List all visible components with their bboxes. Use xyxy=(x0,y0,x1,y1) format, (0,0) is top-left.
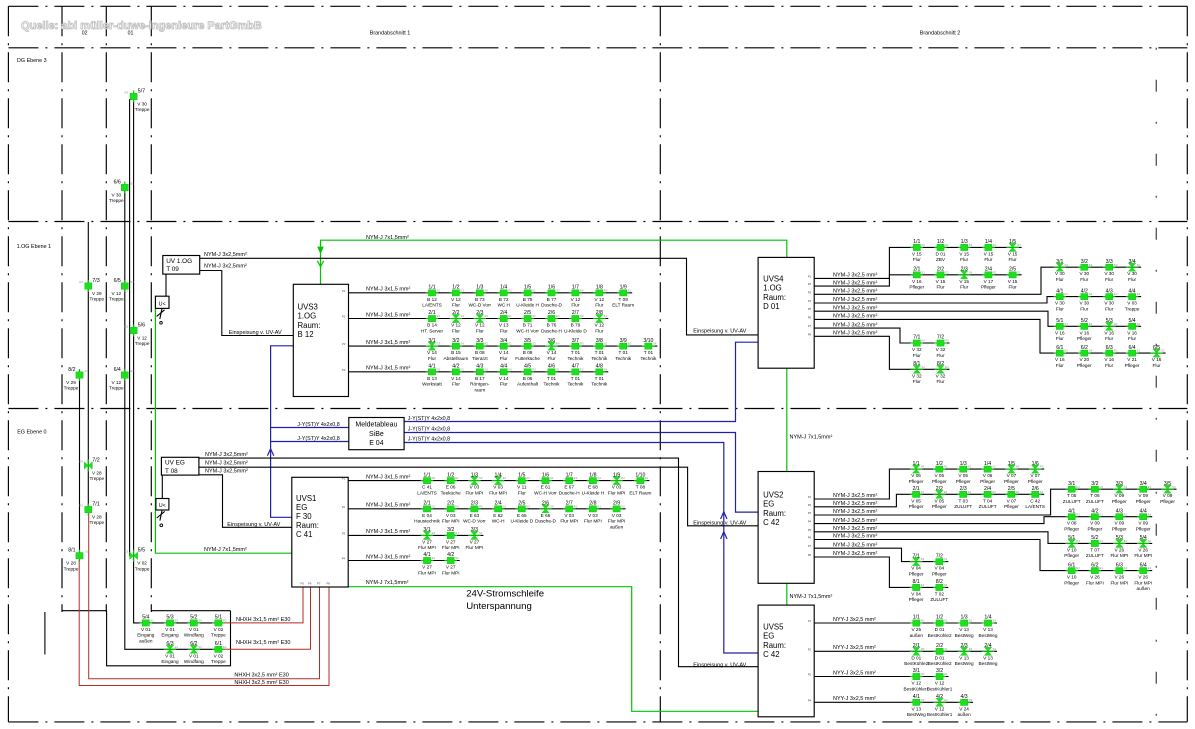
svg-text:3/3: 3/3 xyxy=(1116,481,1123,487)
svg-text:Teeküche: Teeküche xyxy=(441,490,461,495)
svg-text:2/1: 2/1 xyxy=(913,643,920,649)
luminaire UVS3 2/4 V 13 xyxy=(497,310,512,333)
svg-text:2/2: 2/2 xyxy=(937,267,944,273)
switch symbol below U< 1.OG xyxy=(157,308,165,319)
svg-text:S3: S3 xyxy=(1064,322,1068,326)
riser wire V29/V28 Treppe (x=88) xyxy=(87,222,89,510)
svg-text:NYM-J 3x1,5 mm²: NYM-J 3x1,5 mm² xyxy=(366,503,410,509)
svg-text:ELT Raum: ELT Raum xyxy=(629,490,651,495)
luminaire UVS4 6/4 V 21 xyxy=(1125,345,1141,368)
svg-text:Pfleger: Pfleger xyxy=(1064,527,1079,532)
luminaire UVS2 6/3 V 26 xyxy=(1110,562,1128,585)
svg-text:1/7: 1/7 xyxy=(566,472,573,478)
svg-text:S1: S1 xyxy=(921,365,925,369)
luminaire UVS4 7/2 V 32 xyxy=(934,335,949,358)
svg-text:2/4: 2/4 xyxy=(985,267,992,273)
svg-text:V 01: V 01 xyxy=(165,653,175,658)
svg-text:2/1: 2/1 xyxy=(428,310,435,316)
svg-text:V 04: V 04 xyxy=(911,566,921,571)
svg-text:4/6: 4/6 xyxy=(548,364,555,370)
svg-text:S4: S4 xyxy=(944,583,948,587)
svg-text:E4: E4 xyxy=(455,504,459,508)
luminaire UVS5 3/2 V 12 xyxy=(927,668,953,691)
luminaire UVS4 2/5 V 15 xyxy=(1006,267,1021,290)
blue arrow up 2 on UVS5 line xyxy=(721,532,727,539)
wire circuit UVS5 1 xyxy=(814,622,997,624)
svg-text:P1: P1 xyxy=(342,477,346,481)
svg-text:V 27: V 27 xyxy=(446,539,456,544)
luminaire riser 7/1 V 28 Treppe xyxy=(79,501,104,525)
svg-text:EG Ebene 0: EG Ebene 0 xyxy=(17,430,46,436)
svg-text:Pfleger: Pfleger xyxy=(1087,527,1102,532)
svg-text:5/4: 5/4 xyxy=(1128,318,1135,324)
svg-text:P2: P2 xyxy=(808,647,812,651)
luminaire riser 5/7 V 30 Treppe xyxy=(125,88,150,112)
svg-text:Pfleger: Pfleger xyxy=(981,285,996,290)
svg-text:R3: R3 xyxy=(1100,485,1104,489)
luminaire UVS3 2/7 B 79 xyxy=(564,310,587,333)
luminaire UVS1 2/8 V 03 xyxy=(584,501,602,524)
svg-text:NYM-J 3x2,5 mm²: NYM-J 3x2,5 mm² xyxy=(833,305,877,311)
svg-text:7/3: 7/3 xyxy=(92,278,100,284)
svg-text:Haustechnik: Haustechnik xyxy=(414,519,440,524)
svg-text:Pfleger: Pfleger xyxy=(1136,499,1151,504)
luminaire row6 6/1 V 02 xyxy=(211,641,227,664)
svg-text:3/2: 3/2 xyxy=(1081,259,1088,265)
svg-text:P5: P5 xyxy=(301,582,305,586)
svg-text:BestWeg: BestWeg xyxy=(979,633,998,638)
svg-text:E4: E4 xyxy=(1089,263,1093,267)
svg-text:V 27: V 27 xyxy=(446,565,456,570)
luminaire UVS2 1/6 V 07 xyxy=(1028,461,1044,484)
svg-text:6/5: 6/5 xyxy=(1153,345,1160,351)
svg-text:24V-Stromschleife: 24V-Stromschleife xyxy=(466,588,544,599)
svg-text:E3: E3 xyxy=(969,647,973,651)
svg-text:2/3: 2/3 xyxy=(960,643,967,649)
svg-text:S1: S1 xyxy=(628,288,632,292)
svg-text:T 01: T 01 xyxy=(595,376,605,381)
svg-text:B 76: B 76 xyxy=(547,323,557,328)
svg-text:E4: E4 xyxy=(1016,465,1020,469)
svg-text:E3: E3 xyxy=(944,490,948,494)
svg-text:6/3: 6/3 xyxy=(1106,345,1113,351)
luminaire UVS1 4/2 V 27 xyxy=(442,552,460,575)
svg-text:Eingang: Eingang xyxy=(161,633,179,638)
svg-text:5/3: 5/3 xyxy=(1116,535,1123,541)
svg-text:S4: S4 xyxy=(993,647,997,651)
svg-text:6/1: 6/1 xyxy=(215,641,222,647)
svg-text:5/2: 5/2 xyxy=(190,615,197,621)
svg-text:R3: R3 xyxy=(479,504,483,508)
svg-text:1/5: 1/5 xyxy=(524,285,531,291)
svg-text:T 04: T 04 xyxy=(983,498,993,503)
svg-text:2/1: 2/1 xyxy=(423,501,430,507)
wire J-Y(ST)Y meldetableau left bottom xyxy=(271,441,349,443)
svg-text:E 62: E 62 xyxy=(493,513,503,518)
svg-text:V 16: V 16 xyxy=(1152,357,1162,362)
svg-text:V 27: V 27 xyxy=(422,539,432,544)
svg-text:NYM-J 3x1,5 mm²: NYM-J 3x1,5 mm² xyxy=(366,474,410,480)
luminaire UVS3 3/1 V 14 xyxy=(426,338,441,361)
svg-text:E3: E3 xyxy=(574,476,578,480)
luminaire UVS1 2/5 E 65 xyxy=(510,501,533,524)
svg-text:E4: E4 xyxy=(556,342,560,346)
wire circuit UVS1 1 xyxy=(348,480,649,482)
svg-text:B 77: B 77 xyxy=(547,297,557,302)
svg-text:BestKühle2: BestKühle2 xyxy=(904,661,928,666)
svg-text:Treppe: Treppe xyxy=(1125,306,1140,311)
wire circuit UVS4 5 xyxy=(814,311,1141,326)
luminaire UVS2 7/1 V 04 xyxy=(909,553,925,576)
svg-text:V 04: V 04 xyxy=(911,591,921,596)
svg-text:Flur MPI: Flur MPI xyxy=(442,570,460,575)
luminaire UVS5 1/3 V 13 xyxy=(955,615,974,638)
svg-text:E1: E1 xyxy=(455,476,459,480)
svg-text:E4: E4 xyxy=(944,698,948,702)
svg-text:1/2: 1/2 xyxy=(936,461,943,467)
svg-text:WC-H: WC-H xyxy=(492,519,505,524)
svg-text:2/5: 2/5 xyxy=(518,501,525,507)
svg-text:1/3: 1/3 xyxy=(476,285,483,291)
svg-text:NYY-J 3x2,5 mm²: NYY-J 3x2,5 mm² xyxy=(833,670,876,676)
svg-text:V 10: V 10 xyxy=(1067,547,1077,552)
svg-text:WC-D Vorr: WC-D Vorr xyxy=(468,303,491,308)
svg-text:R2: R2 xyxy=(223,619,227,623)
drawing frame bottom border xyxy=(8,721,1187,723)
svg-text:E3: E3 xyxy=(921,583,925,587)
svg-text:E4: E4 xyxy=(993,243,997,247)
luminaire UVS1 1/4 V 03 xyxy=(489,472,507,495)
svg-text:NHXH 3x2,5 mm² E30: NHXH 3x2,5 mm² E30 xyxy=(234,672,288,678)
luminaire UVS3 1/6 B 77 xyxy=(541,285,562,308)
svg-text:Pfleger: Pfleger xyxy=(909,479,924,484)
svg-text:3/4: 3/4 xyxy=(1140,481,1147,487)
svg-text:LA/ENTS: LA/ENTS xyxy=(422,303,442,308)
distribution box UVS4 xyxy=(758,257,814,368)
svg-text:S1: S1 xyxy=(556,367,560,371)
svg-text:4/5: 4/5 xyxy=(524,364,531,370)
svg-text:V 13: V 13 xyxy=(983,655,993,660)
svg-text:S1: S1 xyxy=(1124,485,1128,489)
svg-text:UVS2: UVS2 xyxy=(763,491,783,500)
svg-text:V 12: V 12 xyxy=(137,336,147,341)
svg-text:DG Ebene 3: DG Ebene 3 xyxy=(17,58,47,64)
svg-text:S3: S3 xyxy=(198,645,202,649)
wire circuit UVS1 4 xyxy=(348,560,460,562)
svg-text:T 08: T 08 xyxy=(165,468,178,475)
svg-text:NYM-J 7x1,5mm²: NYM-J 7x1,5mm² xyxy=(204,547,247,553)
luminaire UVS5 2/1 D 01 xyxy=(904,643,928,666)
svg-text:P4: P4 xyxy=(808,299,812,303)
luminaire UVS4 1/5 V 15 xyxy=(1006,239,1021,262)
svg-text:V 14: V 14 xyxy=(427,350,437,355)
svg-text:V 12: V 12 xyxy=(594,323,604,328)
svg-text:Dusche-H: Dusche-H xyxy=(559,490,580,495)
svg-text:S1: S1 xyxy=(1100,539,1104,543)
svg-text:4/3: 4/3 xyxy=(1116,508,1123,514)
svg-text:S4: S4 xyxy=(1089,349,1093,353)
svg-text:S3: S3 xyxy=(432,504,436,508)
svg-text:T 01: T 01 xyxy=(595,350,605,355)
svg-text:2/8: 2/8 xyxy=(596,310,603,316)
svg-text:NYY-J 3x2,5 mm²: NYY-J 3x2,5 mm² xyxy=(833,696,876,702)
svg-text:P5: P5 xyxy=(808,528,812,532)
svg-text:1/1: 1/1 xyxy=(913,615,920,621)
svg-text:6/6: 6/6 xyxy=(114,179,121,185)
svg-text:D 01: D 01 xyxy=(911,655,921,660)
svg-text:E3: E3 xyxy=(945,270,949,274)
svg-text:V 26: V 26 xyxy=(1114,575,1124,580)
svg-text:E1: E1 xyxy=(532,288,536,292)
svg-text:P1: P1 xyxy=(808,619,812,623)
luminaire UVS2 8/1 V 04 xyxy=(909,579,925,602)
distribution box UVS1 xyxy=(292,477,348,587)
wire circuit UVS1 3 xyxy=(348,534,483,536)
svg-text:Pfleger: Pfleger xyxy=(1136,527,1151,532)
luminaire UVS2 2/2 V 05 xyxy=(932,486,948,509)
luminaire UVS1 1/3 V 03 xyxy=(466,472,484,495)
svg-text:R2: R2 xyxy=(1076,512,1080,516)
svg-text:P3: P3 xyxy=(342,531,346,535)
svg-text:F 30: F 30 xyxy=(296,512,312,521)
svg-text:8/1: 8/1 xyxy=(68,548,75,554)
svg-text:E4: E4 xyxy=(1089,322,1093,326)
svg-text:V 03: V 03 xyxy=(564,513,574,518)
luminaire UVS3 1/7 V 12 xyxy=(569,285,584,308)
svg-text:T 03: T 03 xyxy=(959,498,969,503)
svg-text:5/3: 5/3 xyxy=(1106,318,1113,324)
luminaire UVS3 4/7 T 01 xyxy=(567,364,584,387)
svg-text:S4: S4 xyxy=(598,476,602,480)
svg-text:E1: E1 xyxy=(944,619,948,623)
svg-text:BestWeg: BestWeg xyxy=(979,661,998,666)
wire blue riser to UVS3 xyxy=(271,346,294,442)
luminaire UVS4 4/4 V 03 xyxy=(1125,288,1141,311)
svg-text:C 42: C 42 xyxy=(763,518,779,527)
svg-text:E3: E3 xyxy=(1124,539,1128,543)
svg-text:U-Kleide H: U-Kleide H xyxy=(582,490,605,495)
svg-text:S4: S4 xyxy=(130,280,134,284)
svg-text:NYM-J 3x2,5 mm²: NYM-J 3x2,5 mm² xyxy=(833,551,877,557)
svg-text:ZULUFT: ZULUFT xyxy=(954,504,972,509)
svg-text:3/3: 3/3 xyxy=(476,338,483,344)
svg-text:Flur MPI: Flur MPI xyxy=(466,545,484,550)
svg-text:Pfleger: Pfleger xyxy=(956,479,971,484)
wire circuit UVS2 8 xyxy=(814,557,948,587)
svg-text:HT. Server: HT. Server xyxy=(421,328,444,333)
svg-text:E4: E4 xyxy=(432,531,436,535)
svg-text:E1: E1 xyxy=(1100,512,1104,516)
svg-text:V 12: V 12 xyxy=(911,681,921,686)
svg-text:Technik: Technik xyxy=(567,356,584,361)
svg-text:J-Y(ST)Y 4x2x0,8: J-Y(ST)Y 4x2x0,8 xyxy=(408,427,450,433)
svg-text:B 17: B 17 xyxy=(475,376,485,381)
luminaire UVS4 5/3 V 16 xyxy=(1103,318,1118,341)
svg-text:V 13: V 13 xyxy=(911,706,921,711)
svg-text:3/3: 3/3 xyxy=(1106,259,1113,265)
svg-text:2/8: 2/8 xyxy=(589,501,596,507)
svg-text:T 01: T 01 xyxy=(571,350,581,355)
svg-text:3/1: 3/1 xyxy=(423,527,430,533)
svg-text:3/5: 3/5 xyxy=(524,338,531,344)
svg-text:P2: P2 xyxy=(342,315,346,319)
svg-text:UVS4: UVS4 xyxy=(763,275,784,284)
svg-text:1/8: 1/8 xyxy=(596,285,603,291)
svg-text:E4: E4 xyxy=(503,476,507,480)
svg-text:V 12: V 12 xyxy=(594,297,604,302)
svg-text:V 02: V 02 xyxy=(214,653,224,658)
svg-text:V 05: V 05 xyxy=(911,498,921,503)
svg-text:UVS3: UVS3 xyxy=(298,303,318,312)
svg-text:Flur: Flur xyxy=(1009,257,1018,262)
svg-text:T 05: T 05 xyxy=(1067,493,1077,498)
svg-text:außen: außen xyxy=(957,712,971,717)
svg-text:Pfleger: Pfleger xyxy=(932,479,947,484)
luminaire riser 5/5 V 02 Treppe xyxy=(125,548,150,572)
svg-text:Technik: Technik xyxy=(591,356,608,361)
luminaire UVS4 3/4 V 30 xyxy=(1126,259,1141,282)
svg-text:Flur MPI: Flur MPI xyxy=(1134,580,1152,585)
luminaire UVS2 5/3 V 26 xyxy=(1110,535,1128,558)
svg-text:V 12: V 12 xyxy=(451,323,461,328)
svg-text:P7: P7 xyxy=(808,324,812,328)
svg-text:S1: S1 xyxy=(1137,263,1141,267)
luminaire UVS1 1/1 C 41 xyxy=(417,472,437,495)
svg-text:V 15: V 15 xyxy=(984,251,994,256)
svg-text:3/2: 3/2 xyxy=(1091,481,1098,487)
luminaire UVS4 6/3 V 16 xyxy=(1103,345,1118,368)
svg-text:V 27: V 27 xyxy=(422,565,432,570)
svg-text:1/3: 1/3 xyxy=(960,615,967,621)
svg-text:R3: R3 xyxy=(1040,465,1044,469)
svg-text:R2: R2 xyxy=(921,672,925,676)
luminaire riser 6/4 V 12 Treppe xyxy=(109,367,134,391)
svg-text:P2: P2 xyxy=(808,503,812,507)
svg-text:T 06: T 06 xyxy=(1090,493,1100,498)
svg-text:P4: P4 xyxy=(342,368,346,372)
luminaire row6 6/2 V 01 xyxy=(184,641,204,664)
svg-text:Flur: Flur xyxy=(452,328,461,333)
svg-text:8/2: 8/2 xyxy=(936,579,943,585)
wire circuit UVS4 6 xyxy=(814,319,1165,353)
svg-text:E4: E4 xyxy=(1076,485,1080,489)
svg-text:NYM-J 7x1,5mm²: NYM-J 7x1,5mm² xyxy=(790,594,833,600)
left EG sub-net wire vertical stub xyxy=(44,612,46,655)
svg-text:7/1: 7/1 xyxy=(92,501,100,507)
svg-text:8/1: 8/1 xyxy=(913,361,920,367)
luminaire UVS1 2/3 E 63 xyxy=(463,501,486,524)
svg-text:P4: P4 xyxy=(808,698,812,702)
distribution box undervoltage monitor U< EG xyxy=(156,499,169,511)
luminaire UVS2 2/4 T 04 xyxy=(979,486,997,509)
svg-text:8/2: 8/2 xyxy=(68,367,75,373)
svg-text:WC-D Vorr: WC-D Vorr xyxy=(463,519,486,524)
luminaire riser 5/6 V 12 Treppe xyxy=(125,322,150,346)
svg-text:BestWeg: BestWeg xyxy=(955,633,974,638)
svg-text:EG: EG xyxy=(296,503,307,512)
svg-text:R2: R2 xyxy=(992,490,996,494)
svg-text:NYM-J 7x1,5mm²: NYM-J 7x1,5mm² xyxy=(366,580,409,586)
svg-text:Flur: Flur xyxy=(936,379,945,384)
svg-text:P7: P7 xyxy=(808,544,812,548)
svg-text:D 01: D 01 xyxy=(935,655,945,660)
svg-text:raum: raum xyxy=(474,387,485,392)
svg-text:3/4: 3/4 xyxy=(1128,259,1135,265)
header band separator line xyxy=(8,47,1187,49)
svg-text:R2: R2 xyxy=(1114,349,1118,353)
luminaire UVS2 8/2 T 02 xyxy=(930,579,948,602)
svg-text:1/1: 1/1 xyxy=(428,285,435,291)
luminaire UVS4 2/1 V 16 xyxy=(909,267,925,290)
svg-text:Flur: Flur xyxy=(595,328,604,333)
svg-text:6/2: 6/2 xyxy=(1091,562,1098,568)
zone boundary 1.OG Ebene 1 xyxy=(8,221,1187,223)
svg-text:S3: S3 xyxy=(1124,566,1128,570)
svg-text:5/6: 5/6 xyxy=(138,322,146,328)
svg-text:Technik: Technik xyxy=(544,382,561,387)
svg-text:Flur MPI: Flur MPI xyxy=(442,545,460,550)
svg-text:S3: S3 xyxy=(532,342,536,346)
luminaire UVS2 7/2 V 04 xyxy=(932,553,948,576)
svg-text:E 06: E 06 xyxy=(446,485,456,490)
svg-text:C 42: C 42 xyxy=(763,650,779,659)
svg-text:4/1: 4/1 xyxy=(1068,508,1075,514)
svg-text:Flur: Flur xyxy=(1056,363,1065,368)
svg-text:V 10: V 10 xyxy=(1067,575,1077,580)
luminaire UVS1 2/1 E 04 xyxy=(414,501,440,524)
svg-text:3/1: 3/1 xyxy=(1056,259,1063,265)
svg-text:7/2: 7/2 xyxy=(936,553,943,559)
luminaire UVS4 5/4 V 16 xyxy=(1126,318,1141,341)
svg-text:NYM-J 3x1,5 mm²: NYM-J 3x1,5 mm² xyxy=(366,366,410,372)
svg-text:E3: E3 xyxy=(628,342,632,346)
luminaire UVS1 4/1 V 27 xyxy=(418,552,436,575)
svg-text:B 71: B 71 xyxy=(523,323,533,328)
green arrow into UVS3 xyxy=(317,247,324,255)
luminaire UVS2 4/4 V 09 xyxy=(1136,508,1152,531)
luminaire row5 5/2 V 01 xyxy=(184,615,204,638)
svg-text:Flur MPI: Flur MPI xyxy=(1086,580,1104,585)
luminaire UVS5 4/3 V 24 xyxy=(957,694,972,717)
svg-text:5/2: 5/2 xyxy=(1091,535,1098,541)
svg-text:Flur: Flur xyxy=(500,328,509,333)
svg-text:S4: S4 xyxy=(921,465,925,469)
svg-text:ZULUFT: ZULUFT xyxy=(1086,553,1104,558)
svg-text:Treppe: Treppe xyxy=(135,341,150,346)
wire green 24V loop to UVS3 and UVS4 (NYM-J 7x1,5mm2) xyxy=(321,240,787,284)
luminaire UVS5 2/3 V 13 xyxy=(955,643,974,666)
svg-text:5/1: 5/1 xyxy=(215,615,222,621)
svg-text:NYM-J 3x2,5 mm²: NYM-J 3x2,5 mm² xyxy=(833,280,877,286)
luminaire UVS4 3/2 V 30 xyxy=(1078,259,1093,282)
svg-text:3/2: 3/2 xyxy=(936,668,943,674)
svg-text:Quelle: abi müller-duwe-ingeni: Quelle: abi müller-duwe-ingenieure PartG… xyxy=(21,20,262,32)
svg-text:Raum:: Raum: xyxy=(298,321,321,330)
svg-text:S4: S4 xyxy=(461,314,465,318)
svg-text:S4: S4 xyxy=(1172,485,1176,489)
wire NYM-J 3x2,5 UV 1.OG to UVS4 xyxy=(200,258,758,335)
svg-text:1/2: 1/2 xyxy=(937,239,944,245)
svg-text:6/1: 6/1 xyxy=(1068,562,1075,568)
svg-text:U-Kleide D: U-Kleide D xyxy=(510,519,533,524)
luminaire UVS2 4/3 V 09 xyxy=(1112,508,1128,531)
svg-text:V 06: V 06 xyxy=(983,473,993,478)
svg-text:V 30: V 30 xyxy=(137,102,147,107)
svg-text:P1: P1 xyxy=(342,289,346,293)
switch symbol below U< EG xyxy=(157,510,165,521)
svg-text:S1: S1 xyxy=(921,270,925,274)
wire green UVS1 loop to UVS5 xyxy=(348,587,758,712)
